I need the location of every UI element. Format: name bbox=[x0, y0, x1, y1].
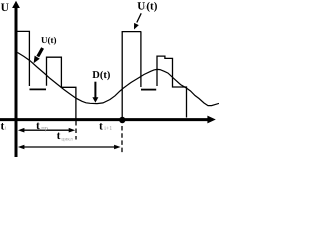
node t_i+1 dot bbox=[119, 117, 125, 123]
wire dashed vertical at t_i+1 bbox=[121, 126, 123, 153]
level dash right bbox=[141, 89, 156, 91]
level dash left bbox=[30, 88, 47, 90]
svg-text:U(t): U(t) bbox=[41, 35, 57, 45]
span arrow t_pr bbox=[21, 129, 72, 131]
svg-text:t: t bbox=[57, 130, 61, 142]
svg-text:t: t bbox=[1, 121, 5, 133]
span arrow t_cycle bbox=[21, 146, 118, 148]
wire dashed vertical at t_pr end bbox=[75, 121, 77, 140]
staircase step 1 top bbox=[17, 31, 29, 86]
svg-text:t: t bbox=[99, 121, 103, 133]
staircase right tall bar bbox=[122, 32, 141, 119]
svg-text:пр: пр bbox=[41, 125, 48, 132]
wire Y axis bbox=[15, 6, 18, 157]
arrow for U(t) (thick) bbox=[38, 48, 43, 57]
svg-text:U: U bbox=[1, 2, 10, 14]
svg-text:(t): (t) bbox=[146, 1, 157, 13]
arrow for D(t) bbox=[94, 82, 96, 98]
svg-text:D(t): D(t) bbox=[92, 70, 111, 81]
svg-text:t: t bbox=[36, 120, 40, 132]
wire X time axis bbox=[0, 118, 208, 121]
arrow for U0(t) bbox=[137, 13, 141, 22]
staircase step 2 bar bbox=[47, 57, 76, 119]
svg-text:цикл: цикл bbox=[61, 137, 73, 143]
staircase right second bar with notch bbox=[157, 56, 187, 117]
svg-text:i+1: i+1 bbox=[104, 126, 112, 132]
curve U(t) input signal bbox=[18, 53, 220, 106]
